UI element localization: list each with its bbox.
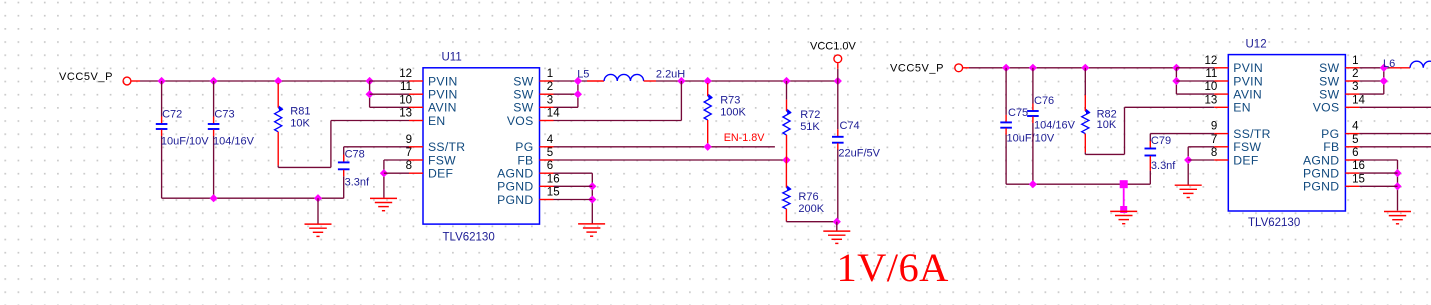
- capacitor C75 upper lead wire: [1005, 68, 1007, 115]
- node junction riser/pin16: [588, 182, 596, 190]
- svg-text:104/16V: 104/16V: [213, 135, 255, 147]
- svg-text:VOS: VOS: [507, 114, 534, 128]
- node junction riser/pin8 DEF: [380, 169, 388, 177]
- node junction FB/R72/R76: [782, 156, 790, 164]
- svg-text:PGND: PGND: [1303, 167, 1339, 181]
- capacitor C72 upper lead wire: [161, 81, 163, 117]
- capacitor C73 upper lead wire: [213, 81, 215, 117]
- resistor R82 upper wire: [1084, 68, 1086, 95]
- U11 pin 13 (EN) left: [399, 108, 445, 128]
- node junction branch/pin11 (right): [1172, 77, 1180, 85]
- svg-text:5: 5: [547, 147, 553, 159]
- svg-text:FB: FB: [1323, 140, 1339, 154]
- svg-text:AVIN: AVIN: [428, 101, 457, 115]
- svg-text:11: 11: [400, 81, 412, 93]
- wire EN riser vertical: [330, 121, 332, 168]
- U12 pin 12 (PVIN) left: [1205, 55, 1263, 75]
- svg-text:16: 16: [1352, 160, 1365, 172]
- wire bottom rail (right C75/C76/C79): [1006, 183, 1150, 185]
- capacitor C73: [208, 117, 220, 137]
- ground G2 (AGND/PGND): [578, 224, 605, 236]
- svg-text:FSW: FSW: [428, 153, 456, 167]
- svg-text:10K: 10K: [290, 118, 310, 130]
- wire PGND pin 16 to riser: [554, 185, 593, 187]
- op-amp/IC U11 TLV62130 body: [423, 68, 540, 224]
- wire port to output rail: [837, 69, 839, 81]
- wire R81 bottom to EN riser (horizontal): [277, 165, 279, 167]
- node junction rail/R81: [274, 77, 282, 85]
- wire DEF pin 8 to riser (right): [1188, 159, 1214, 161]
- svg-text:U11: U11: [442, 52, 462, 64]
- resistor R72 upper wire: [786, 81, 788, 100]
- svg-text:11: 11: [1205, 68, 1217, 80]
- node junction rail/PVIN branch (right): [1172, 64, 1180, 72]
- svg-text:PVIN: PVIN: [1233, 61, 1263, 75]
- svg-text:8: 8: [1211, 147, 1217, 159]
- wire PGND pin 16 to riser (right): [1359, 172, 1397, 174]
- capacitor C75: [1000, 115, 1012, 135]
- svg-text:L6: L6: [1383, 58, 1395, 70]
- U11 pin 12 (PVIN) left: [399, 68, 457, 88]
- svg-text:7: 7: [1211, 134, 1217, 146]
- capacitor C76 lower lead wire: [1032, 123, 1034, 184]
- node junction rail/C76: [1029, 64, 1037, 72]
- svg-text:5: 5: [1352, 134, 1358, 146]
- ground G1 (input caps): [305, 224, 332, 236]
- svg-text:51K: 51K: [800, 121, 820, 133]
- wire AGND/PGND ground riser (right): [1397, 160, 1399, 211]
- node junction rail/VOS riser: [677, 77, 685, 85]
- svg-text:1V/6A: 1V/6A: [837, 245, 949, 290]
- svg-text:SW: SW: [1319, 88, 1339, 102]
- wire SW pins 1-3 tie column (right): [1359, 68, 1390, 94]
- wire AGND pin 6 to PGND riser (right): [1359, 159, 1397, 161]
- svg-text:C78: C78: [345, 149, 365, 161]
- svg-text:R72: R72: [800, 109, 820, 121]
- node junction PG wire/R73 bottom: [704, 143, 712, 151]
- port VCC5V_P (right), red open circle: [955, 64, 969, 72]
- wire EN to U12 pin 13: [1125, 106, 1215, 108]
- U11 pin 16 (PGND) right: [497, 173, 560, 193]
- U12 pin 9 (SS/TR) left: [1211, 121, 1271, 141]
- node junction rail/R72: [782, 77, 790, 85]
- U12 pin 11 (PVIN) left: [1205, 68, 1263, 88]
- wire branch to U11 pin 10 (AVIN): [370, 106, 409, 108]
- svg-text:VOS: VOS: [1313, 101, 1340, 115]
- wire VCC5V_P rail (right) from port to PVIN branch: [969, 67, 1176, 69]
- node junction rail/R73: [704, 77, 712, 85]
- wire DEF pin 8 to riser: [384, 172, 409, 174]
- node junction bottom rail/C73: [210, 194, 218, 202]
- U12 pin 10 (AVIN) left: [1205, 81, 1263, 101]
- svg-text:C73: C73: [214, 109, 234, 121]
- svg-text:SW: SW: [513, 88, 533, 102]
- U11 pin 3 (SW) right: [513, 94, 553, 114]
- node junction rail/C75: [1002, 64, 1010, 72]
- node junction rail/PVIN branch: [366, 77, 374, 85]
- svg-text:3: 3: [547, 94, 553, 106]
- svg-text:2: 2: [1352, 68, 1358, 80]
- ground G5 (FSW/DEF right): [1175, 185, 1202, 197]
- node junction branch/pin11: [366, 90, 374, 98]
- svg-text:DEF: DEF: [428, 167, 453, 181]
- svg-text:C72: C72: [162, 109, 182, 121]
- U11 pin 8 (DEF) left: [406, 160, 454, 180]
- capacitor C74 upper lead wire: [837, 81, 839, 129]
- ground G4 (output): [823, 231, 850, 243]
- svg-text:C75: C75: [1008, 107, 1028, 119]
- svg-text:VCC5V_P: VCC5V_P: [59, 71, 113, 83]
- svg-text:12: 12: [1205, 55, 1218, 67]
- svg-text:200K: 200K: [798, 203, 824, 215]
- svg-text:14: 14: [547, 108, 560, 120]
- svg-text:AVIN: AVIN: [1233, 88, 1262, 102]
- node junction riser/pin8 DEF (right): [1184, 156, 1192, 164]
- node junction rail/C72: [158, 77, 166, 85]
- svg-text:R81: R81: [290, 106, 310, 118]
- svg-text:10K: 10K: [1097, 119, 1117, 131]
- svg-text:104/16V: 104/16V: [1034, 120, 1076, 132]
- resistor R73 100K (PG pull-up): [704, 83, 713, 147]
- ground G7 (AGND/PGND right): [1384, 212, 1411, 224]
- wire SW pins 1-3 tie column: [554, 81, 588, 107]
- svg-text:SS/TR: SS/TR: [428, 140, 465, 154]
- svg-text:100K: 100K: [720, 106, 746, 118]
- svg-text:PVIN: PVIN: [1233, 74, 1263, 88]
- capacitor C74 lower lead wire: [837, 150, 839, 222]
- wire ground drop below bottom rail: [317, 198, 319, 224]
- svg-text:C79: C79: [1151, 135, 1171, 147]
- svg-text:1: 1: [1352, 55, 1358, 67]
- port VCC5V_P (left), red open circle: [123, 77, 140, 85]
- svg-text:C74: C74: [840, 120, 860, 132]
- node junction SW/pin1: [574, 77, 582, 85]
- svg-text:AGND: AGND: [1303, 153, 1339, 167]
- node junction C74/R76 ground node: [833, 218, 841, 226]
- node junction SW/pin2 (right): [1380, 77, 1388, 85]
- U12 pin 1 (SW) right: [1319, 55, 1359, 75]
- wire FSW/DEF ground riser: [383, 160, 385, 198]
- capacitor C72 lower lead wire: [161, 136, 163, 198]
- U11 pin 1 (SW) right: [513, 68, 553, 88]
- svg-text:SS/TR: SS/TR: [1233, 127, 1270, 141]
- capacitor C79 top lead: [1149, 134, 1151, 148]
- no-ERC marker square at ground: [1120, 206, 1127, 213]
- capacitor C78 bottom lead: [343, 170, 345, 198]
- node junction SW/pin1 (right): [1380, 64, 1388, 72]
- svg-text:FB: FB: [517, 153, 533, 167]
- svg-text:EN: EN: [1233, 101, 1251, 115]
- svg-text:PGND: PGND: [497, 180, 533, 194]
- wire PG pin 4 net EN-1.8V: [554, 146, 775, 148]
- wire magenta drop to ground marker: [1123, 188, 1125, 206]
- wire PGND pin 15 to riser (right): [1359, 185, 1397, 187]
- svg-text:FSW: FSW: [1233, 140, 1261, 154]
- capacitor C78 plates: [338, 162, 350, 169]
- capacitor C76 upper lead wire: [1032, 68, 1034, 104]
- U12 pin 8 (DEF) left: [1211, 147, 1259, 167]
- svg-text:PVIN: PVIN: [428, 88, 458, 102]
- ground G3 (FSW/DEF): [370, 198, 397, 210]
- node junction rail/R82: [1081, 64, 1089, 72]
- capacitor C73 lower lead wire: [213, 136, 215, 198]
- capacitor C79 bottom lead: [1149, 156, 1151, 184]
- ground G6 (below no-ERC squares): [1110, 211, 1137, 223]
- svg-text:6: 6: [547, 160, 553, 172]
- svg-text:4: 4: [547, 134, 554, 146]
- wire FSW/DEF ground riser (right): [1187, 147, 1189, 185]
- svg-text:C76: C76: [1034, 95, 1054, 107]
- svg-text:6: 6: [1352, 147, 1358, 159]
- U11 pin 7 (FSW) left: [406, 147, 457, 167]
- svg-text:3: 3: [1352, 81, 1358, 93]
- svg-text:SW: SW: [1319, 74, 1339, 88]
- svg-text:4: 4: [1352, 121, 1359, 133]
- U11 pin 14 (VOS) right: [507, 108, 560, 128]
- resistor R81 10K pull-up: [275, 83, 284, 165]
- capacitor C79 plates: [1145, 149, 1157, 156]
- svg-text:10: 10: [399, 94, 412, 106]
- svg-text:EN-1.8V: EN-1.8V: [724, 132, 766, 144]
- U12 pin 2 (SW) right: [1319, 68, 1359, 88]
- wire rail to U11 pin 12: [370, 80, 409, 82]
- resistor R72 51K: [783, 100, 792, 160]
- svg-text:12: 12: [399, 68, 412, 80]
- node junction riser/pin16 (right): [1393, 169, 1401, 177]
- svg-text:SW: SW: [513, 74, 533, 88]
- capacitor C75 lower lead wire: [1005, 135, 1007, 185]
- svg-text:13: 13: [1205, 94, 1218, 106]
- wire SS/TR pin 9 to C79: [1150, 133, 1214, 135]
- svg-text:13: 13: [399, 108, 412, 120]
- node junction rail/C73: [210, 77, 218, 85]
- U11 pin 11 (PVIN) left: [400, 81, 458, 101]
- svg-text:2: 2: [547, 81, 553, 93]
- resistor R76 200K: [783, 160, 792, 221]
- wire branch to U12 pin 10 (AVIN): [1176, 93, 1214, 95]
- wire FB pin 5 to right edge: [1359, 146, 1431, 148]
- wire branch to U12 pin 11: [1176, 80, 1214, 82]
- node junction bottom rail/ground drop: [314, 194, 322, 202]
- wire SS/TR pin 9 to C78: [344, 146, 409, 148]
- U12 pin 13 (EN) left: [1205, 94, 1251, 114]
- wire VCC5V_P rail from port to PVIN branch: [140, 80, 370, 82]
- port VCC1.0V, red open circle: [834, 55, 842, 69]
- U11 pin 9 (SS/TR) left: [406, 134, 466, 154]
- svg-text:PGND: PGND: [497, 193, 533, 207]
- wire R82 bottom to EN riser (right): [1085, 152, 1124, 154]
- svg-text:3.3nf: 3.3nf: [1151, 160, 1176, 172]
- capacitor C76: [1027, 104, 1039, 124]
- U11 pin 15 (PGND) right: [497, 187, 560, 207]
- svg-text:10: 10: [1205, 81, 1218, 93]
- capacitor C78 top lead: [343, 147, 345, 162]
- svg-text:TLV62130: TLV62130: [1248, 217, 1300, 229]
- U12 pin 6 (AGND) right: [1303, 147, 1359, 167]
- U11 pin 10 (AVIN) left: [399, 94, 457, 114]
- wire PVIN branch vertical (right): [1175, 68, 1177, 94]
- node junction SW/pin2: [574, 90, 582, 98]
- op-amp/IC U12 TLV62130 body: [1228, 55, 1345, 211]
- U11 pin 2 (SW) right: [513, 81, 553, 101]
- wire R76 bottom to output ground: [786, 221, 836, 222]
- U12 pin 16 (PGND) right: [1303, 160, 1365, 180]
- svg-text:1: 1: [547, 68, 553, 80]
- wire VCC1.0V output rail: [656, 80, 838, 82]
- inductor L5 2.2uH: [587, 74, 656, 81]
- wire bottom rail (C72/C73/C78 ground rail): [162, 197, 344, 199]
- U11 pin 5 (FB) right: [517, 147, 553, 167]
- svg-text:R73: R73: [720, 95, 740, 107]
- svg-text:10uF/10V: 10uF/10V: [1007, 133, 1055, 145]
- wire VOS pin 14 to right edge: [1359, 106, 1431, 108]
- capacitor C74 22uF/5V: [832, 129, 844, 149]
- wire PVIN branch vertical: [369, 81, 371, 107]
- svg-text:PVIN: PVIN: [428, 74, 458, 88]
- wire FSW pin 7 to ground riser: [384, 159, 409, 161]
- svg-text:L5: L5: [577, 69, 589, 81]
- wire AGND/PGND ground riser: [591, 173, 593, 224]
- inductor L6: [1390, 61, 1431, 68]
- svg-text:14: 14: [1352, 94, 1365, 106]
- svg-text:3.3nf: 3.3nf: [345, 177, 370, 189]
- U11 pin 6 (AGND) right: [497, 160, 553, 180]
- wire PGND pin 15 to riser: [554, 199, 593, 201]
- node junction bottom rail/C76 (right): [1029, 180, 1037, 188]
- svg-text:AGND: AGND: [497, 167, 533, 181]
- node junction rail/port-C74: [834, 77, 842, 85]
- wire FSW pin 7 to ground riser (right): [1188, 146, 1214, 148]
- svg-text:EN: EN: [428, 114, 446, 128]
- svg-text:10uF/10V: 10uF/10V: [161, 135, 209, 147]
- svg-text:U12: U12: [1246, 39, 1267, 51]
- wire VOS pin 14 to output rail riser: [554, 81, 682, 121]
- wire FB pin 5 to divider: [554, 159, 787, 161]
- svg-text:TLV62130: TLV62130: [443, 231, 495, 243]
- U12 pin 7 (FSW) left: [1211, 134, 1262, 154]
- svg-text:SW: SW: [1319, 61, 1339, 75]
- no-ERC marker square on bottom rail: [1120, 180, 1128, 188]
- node junction riser/pin15 (right): [1393, 182, 1401, 190]
- wire ground stub below C74: [836, 222, 838, 231]
- svg-text:SW: SW: [513, 101, 533, 115]
- svg-text:DEF: DEF: [1233, 153, 1258, 167]
- U11 pin 4 (PG) right: [515, 134, 554, 154]
- svg-text:8: 8: [406, 160, 412, 172]
- svg-text:PGND: PGND: [1303, 180, 1339, 194]
- wire AGND pin 6 to PGND riser: [554, 172, 593, 174]
- svg-text:15: 15: [1352, 173, 1365, 185]
- U12 pin 3 (SW) right: [1319, 81, 1359, 101]
- U12 pin 14 (VOS) right: [1313, 94, 1366, 114]
- svg-text:22uF/5V: 22uF/5V: [838, 148, 880, 160]
- svg-text:PG: PG: [515, 140, 533, 154]
- svg-text:VCC5V_P: VCC5V_P: [890, 63, 944, 75]
- svg-text:15: 15: [547, 187, 560, 199]
- svg-text:R76: R76: [798, 191, 818, 203]
- resistor R82 10K pull-up: [1082, 95, 1091, 152]
- svg-text:16: 16: [547, 173, 560, 185]
- svg-text:7: 7: [406, 147, 412, 159]
- U12 pin 4 (PG) right: [1321, 121, 1359, 141]
- svg-text:9: 9: [1211, 121, 1217, 133]
- wire EN riser vertical (right): [1124, 107, 1126, 154]
- wire PG pin 4 to right edge: [1359, 133, 1431, 135]
- capacitor C72: [156, 117, 168, 137]
- wire branch to U11 pin 11: [370, 93, 409, 95]
- node junction riser/pin15: [588, 195, 596, 203]
- wire EN to U11 pin 13: [331, 120, 409, 122]
- svg-text:9: 9: [406, 134, 412, 146]
- svg-text:PG: PG: [1321, 127, 1339, 141]
- wire rail to U12 pin 12: [1176, 67, 1214, 69]
- U12 pin 15 (PGND) right: [1303, 173, 1365, 193]
- U12 pin 5 (FB) right: [1323, 134, 1359, 154]
- svg-text:VCC1.0V: VCC1.0V: [810, 41, 857, 53]
